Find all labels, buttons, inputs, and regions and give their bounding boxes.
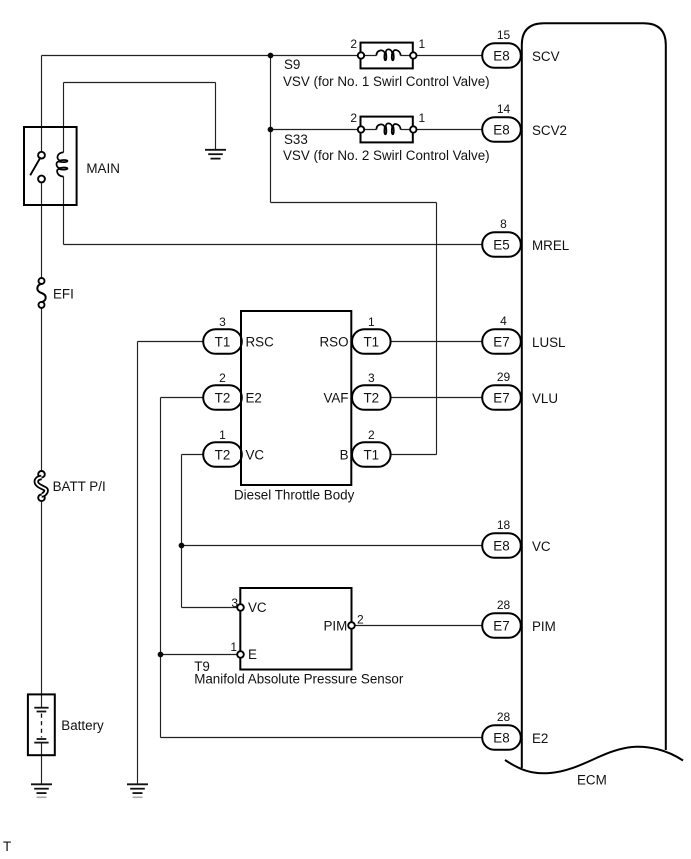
svg-text:E7: E7	[493, 618, 509, 633]
svg-text:T2: T2	[363, 390, 379, 405]
svg-text:4: 4	[500, 314, 507, 328]
svg-text:E2: E2	[246, 390, 262, 405]
svg-text:1: 1	[419, 37, 426, 51]
svg-text:T: T	[3, 839, 11, 854]
svg-text:T2: T2	[215, 390, 231, 405]
svg-text:VSV (for No. 1 Swirl Control V: VSV (for No. 1 Swirl Control Valve)	[283, 74, 490, 89]
svg-text:VC: VC	[248, 600, 267, 615]
svg-text:E: E	[248, 647, 257, 662]
svg-text:Manifold Absolute Pressure Sen: Manifold Absolute Pressure Sensor	[194, 672, 404, 687]
svg-text:S9: S9	[284, 57, 300, 72]
svg-text:1: 1	[219, 428, 226, 442]
svg-text:Diesel Throttle Body: Diesel Throttle Body	[234, 488, 355, 503]
svg-text:BATT P/I: BATT P/I	[53, 479, 106, 494]
svg-text:18: 18	[497, 518, 511, 532]
svg-text:PIM: PIM	[532, 619, 556, 634]
svg-text:T1: T1	[363, 447, 379, 462]
svg-text:ECM: ECM	[577, 773, 607, 788]
svg-text:1: 1	[419, 111, 426, 125]
svg-text:E8: E8	[493, 48, 509, 63]
svg-text:VAF: VAF	[323, 390, 348, 405]
svg-text:2: 2	[350, 37, 357, 51]
svg-text:SCV: SCV	[532, 49, 560, 64]
svg-text:T1: T1	[363, 334, 379, 349]
svg-text:EFI: EFI	[53, 287, 74, 302]
svg-text:E8: E8	[493, 122, 509, 137]
svg-text:RSO: RSO	[319, 334, 348, 349]
svg-text:E2: E2	[532, 731, 548, 746]
svg-text:VSV (for No. 2 Swirl Control V: VSV (for No. 2 Swirl Control Valve)	[283, 148, 490, 163]
svg-text:Battery: Battery	[61, 718, 104, 733]
svg-text:PIM: PIM	[323, 618, 347, 633]
svg-text:VC: VC	[532, 539, 551, 554]
svg-text:28: 28	[497, 710, 511, 724]
svg-text:MAIN: MAIN	[86, 161, 119, 176]
svg-text:VC: VC	[246, 447, 265, 462]
svg-text:29: 29	[497, 370, 511, 384]
svg-text:2: 2	[357, 612, 364, 626]
svg-text:LUSL: LUSL	[532, 335, 566, 350]
svg-text:VLU: VLU	[532, 391, 558, 406]
svg-text:1: 1	[368, 315, 375, 329]
svg-text:15: 15	[497, 28, 511, 42]
svg-text:B: B	[340, 447, 349, 462]
svg-text:E5: E5	[493, 237, 509, 252]
svg-text:E7: E7	[493, 334, 509, 349]
svg-text:3: 3	[219, 315, 226, 329]
svg-text:8: 8	[500, 217, 507, 231]
svg-text:T1: T1	[215, 334, 231, 349]
svg-text:2: 2	[219, 371, 226, 385]
svg-text:E8: E8	[493, 730, 509, 745]
svg-text:2: 2	[368, 428, 375, 442]
svg-text:3: 3	[368, 371, 375, 385]
svg-text:T2: T2	[215, 447, 231, 462]
svg-text:14: 14	[497, 102, 511, 116]
svg-text:SCV2: SCV2	[532, 123, 567, 138]
svg-text:MREL: MREL	[532, 238, 569, 253]
svg-text:28: 28	[497, 598, 511, 612]
svg-text:E8: E8	[493, 538, 509, 553]
svg-text:3: 3	[231, 596, 238, 610]
svg-text:RSC: RSC	[246, 334, 275, 349]
svg-text:S33: S33	[284, 132, 308, 147]
svg-text:2: 2	[350, 111, 357, 125]
svg-text:E7: E7	[493, 390, 509, 405]
svg-text:1: 1	[230, 640, 237, 654]
